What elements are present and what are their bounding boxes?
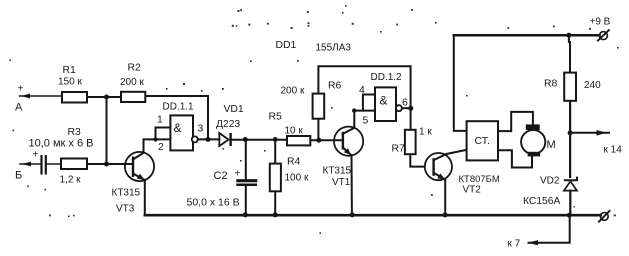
svg-text:к 7: к 7 bbox=[508, 239, 521, 250]
svg-text:&: & bbox=[174, 121, 182, 135]
svg-text:R1: R1 bbox=[63, 65, 77, 76]
svg-text:КТ315: КТ315 bbox=[112, 188, 141, 199]
svg-text:1,2 к: 1,2 к bbox=[60, 175, 82, 186]
svg-text:VD2: VD2 bbox=[540, 176, 560, 187]
svg-text:С2: С2 bbox=[214, 170, 228, 182]
svg-text:50,0 х 16 В: 50,0 х 16 В bbox=[187, 197, 240, 209]
svg-text:А: А bbox=[15, 102, 23, 114]
svg-text:+: + bbox=[18, 84, 24, 95]
svg-text:10 к: 10 к bbox=[285, 126, 304, 137]
svg-text:R5: R5 bbox=[269, 112, 283, 123]
svg-text:6: 6 bbox=[402, 98, 408, 109]
svg-text:М: М bbox=[547, 139, 556, 151]
svg-text:+: + bbox=[235, 169, 241, 180]
svg-text:DD1: DD1 bbox=[276, 40, 297, 51]
svg-text:VD1: VD1 bbox=[224, 104, 244, 115]
svg-text:R6: R6 bbox=[328, 81, 342, 92]
svg-text:VT2: VT2 bbox=[463, 185, 482, 196]
svg-text:200 к: 200 к bbox=[120, 77, 144, 88]
svg-text:к 14: к 14 bbox=[604, 145, 623, 156]
svg-text:150 к: 150 к bbox=[58, 77, 82, 88]
svg-text:200 к: 200 к bbox=[281, 86, 305, 97]
svg-text:R8: R8 bbox=[544, 79, 558, 90]
svg-text:1 к: 1 к bbox=[419, 127, 432, 138]
svg-text:3: 3 bbox=[198, 124, 204, 135]
svg-text:155ЛА3: 155ЛА3 bbox=[316, 43, 352, 54]
svg-text:DD.1.2: DD.1.2 bbox=[371, 72, 403, 83]
svg-text:VT3: VT3 bbox=[116, 204, 135, 215]
svg-text:+9 В: +9 В bbox=[590, 17, 611, 28]
svg-text:1: 1 bbox=[157, 115, 163, 126]
svg-text:&: & bbox=[380, 94, 388, 108]
svg-text:КТ807БМ: КТ807БМ bbox=[459, 174, 500, 185]
svg-text:240: 240 bbox=[584, 80, 601, 91]
svg-text:СТ.: СТ. bbox=[475, 135, 490, 147]
svg-text:R3: R3 bbox=[68, 127, 82, 138]
svg-text:Б: Б bbox=[15, 170, 22, 182]
svg-text:КС156А: КС156А bbox=[523, 196, 560, 207]
svg-text:R2: R2 bbox=[128, 63, 142, 74]
svg-text:2: 2 bbox=[158, 142, 164, 153]
svg-text:10,0 мк х 6 В: 10,0 мк х 6 В bbox=[29, 138, 94, 150]
svg-text:R4: R4 bbox=[287, 157, 301, 168]
svg-text:100 к: 100 к bbox=[285, 173, 309, 184]
svg-text:R7: R7 bbox=[392, 144, 406, 155]
svg-text:5: 5 bbox=[363, 116, 369, 127]
svg-text:4: 4 bbox=[359, 85, 365, 96]
svg-text:КТ315: КТ315 bbox=[323, 166, 352, 177]
svg-text:+: + bbox=[33, 150, 39, 161]
svg-text:Д223: Д223 bbox=[216, 119, 240, 130]
svg-text:VT1: VT1 bbox=[332, 177, 351, 188]
svg-text:DD.1.1: DD.1.1 bbox=[163, 102, 195, 113]
